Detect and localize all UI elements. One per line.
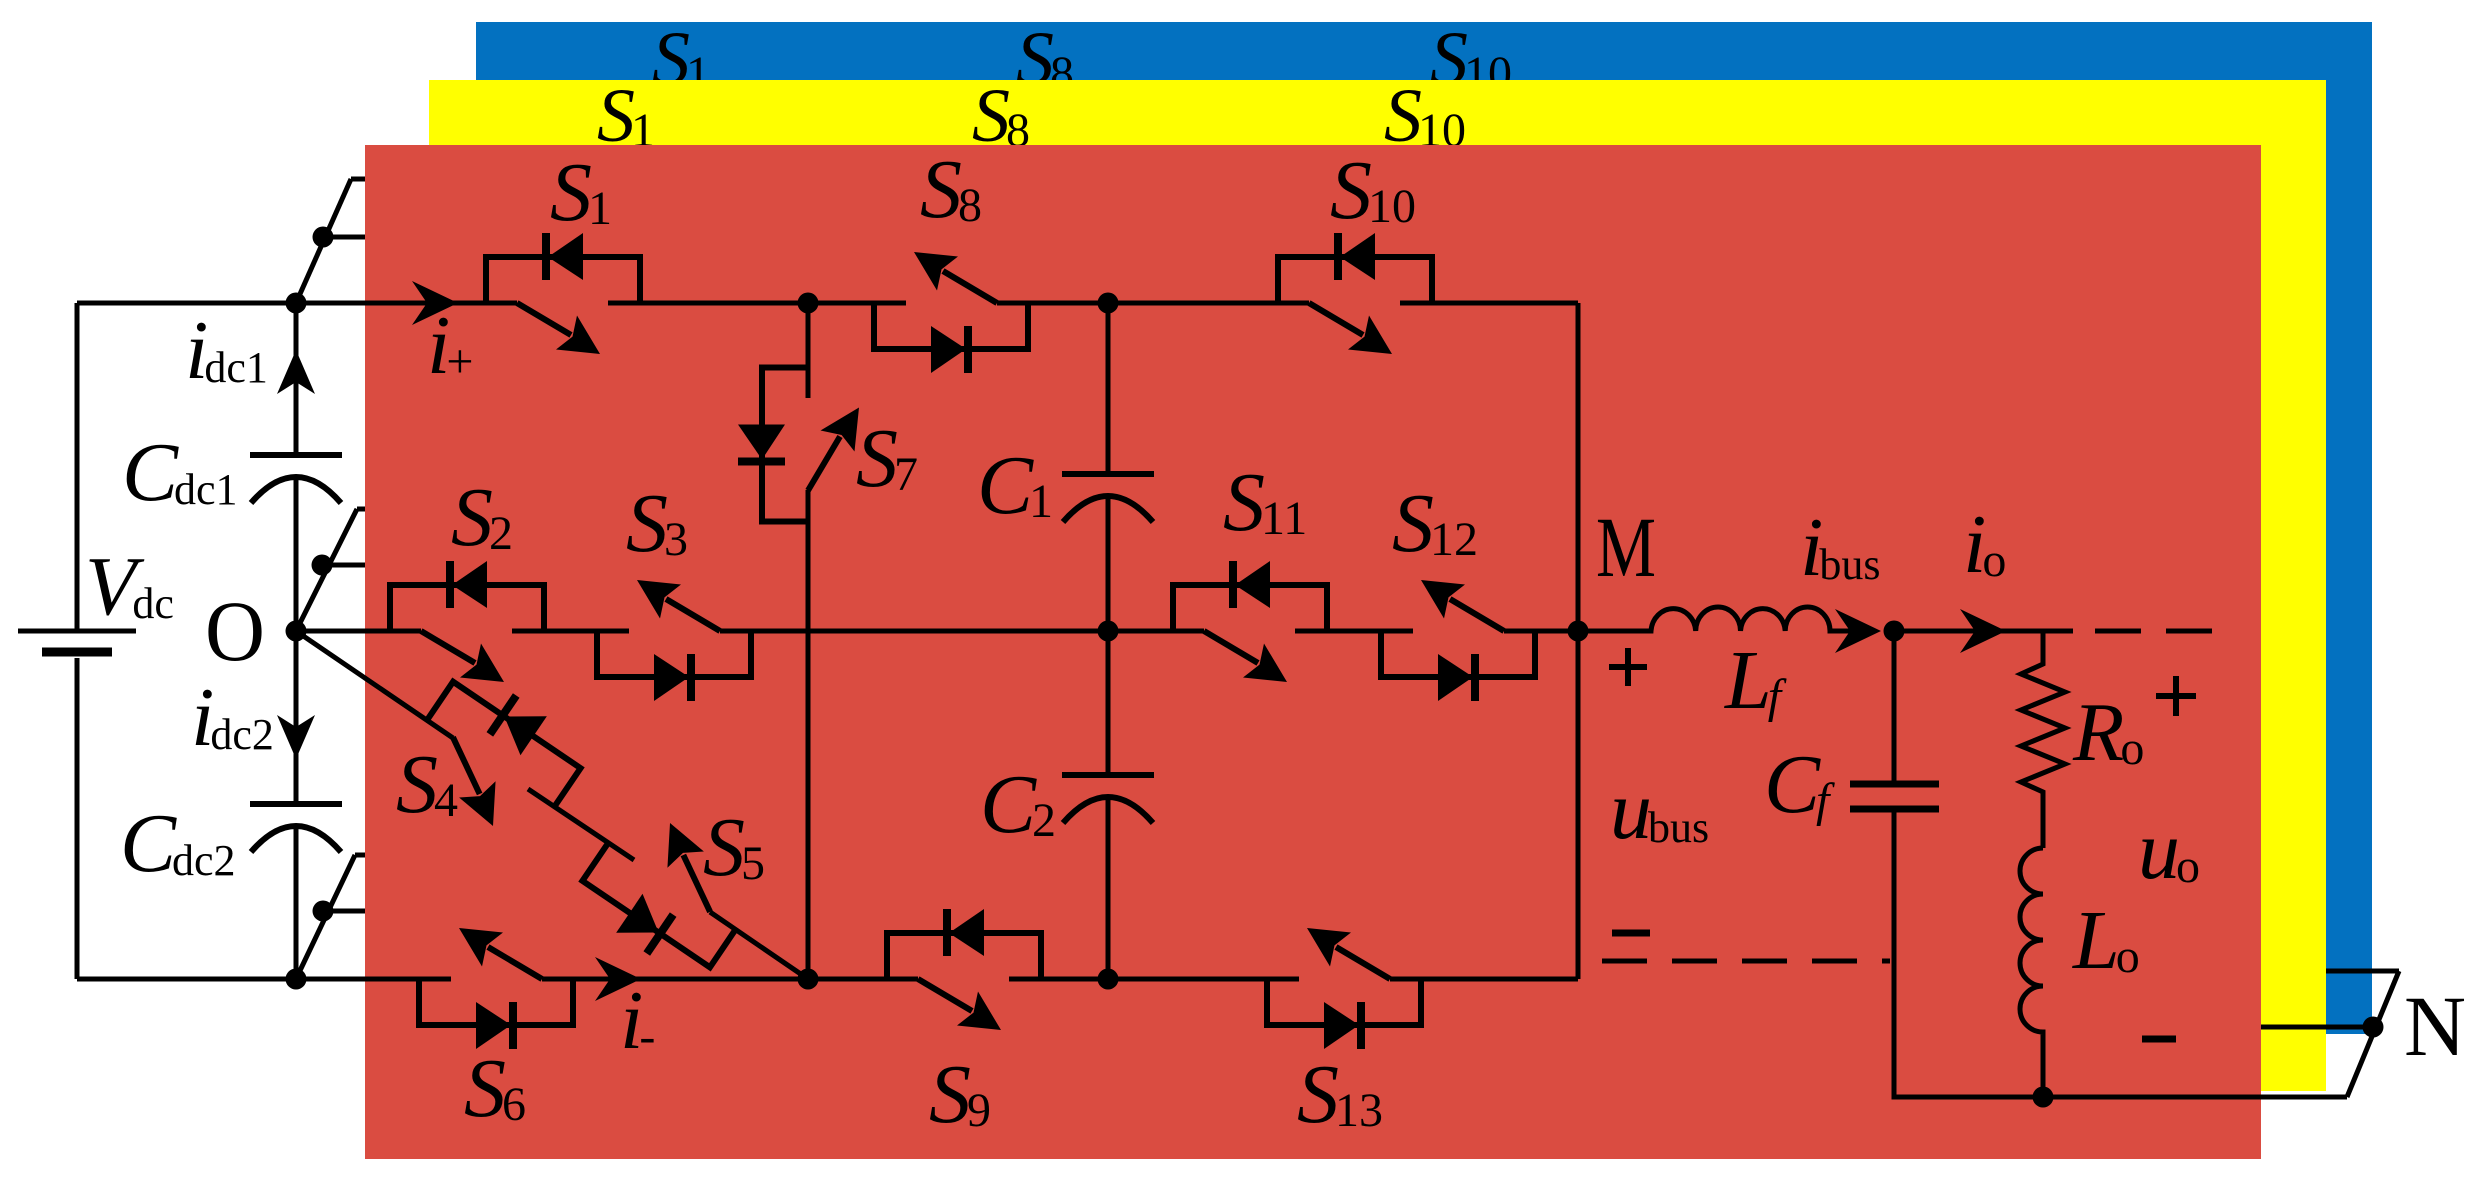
node M	[1568, 621, 1589, 642]
node C1 C2 middle junction	[1098, 621, 1119, 642]
plus sign ubus	[1609, 648, 1647, 686]
switch S10	[1278, 233, 1432, 354]
node top-left junction	[286, 293, 307, 314]
wire tap stub to yellow bottom bus	[323, 909, 410, 914]
svg-text:idc2: idc2	[191, 671, 274, 764]
svg-text:idc1: idc1	[185, 304, 268, 397]
minus sign ubus	[1612, 930, 1650, 937]
switch S13	[1267, 928, 1421, 1049]
wire top bus	[77, 301, 1578, 306]
switch S4	[399, 662, 594, 849]
minus sign uo	[2142, 1036, 2176, 1043]
wire blue layer output rail	[2326, 969, 2399, 974]
switch S9	[887, 909, 1041, 1030]
capacitor Cdc2	[250, 804, 342, 852]
wire diagonal branch O to bottom node (S4 S5)	[296, 631, 808, 979]
wire output line	[1894, 629, 2073, 634]
current arrow idc2	[277, 715, 315, 759]
current arrow ibus	[1835, 609, 1881, 653]
battery Vdc negative plate	[42, 648, 112, 657]
switch S11	[1173, 561, 1327, 682]
node tap top yellow	[313, 227, 334, 248]
switch S3	[597, 580, 751, 701]
node tap bottom yellow	[313, 901, 334, 922]
wire Cdc2 branch	[294, 631, 299, 979]
node S7 top junction	[798, 293, 819, 314]
wire Cf branch upper	[1892, 631, 1897, 784]
wire bottom bus	[77, 977, 1578, 982]
node tap middle yellow	[312, 555, 333, 576]
blue layer rectangle (phase C)	[476, 22, 2372, 1034]
red layer rectangle (phase A)	[365, 145, 2261, 1159]
wire Cf branch lower and bottom output rail	[1894, 809, 2347, 1097]
node N	[2363, 1017, 2384, 1038]
resistor Ro	[2021, 631, 2065, 848]
wire dashed output continuation	[2095, 629, 2212, 634]
inductor Lf	[1578, 607, 1866, 631]
switch S5	[569, 801, 764, 988]
yellow layer rectangle (phase B)	[429, 80, 2326, 1091]
current arrow io	[1960, 609, 2006, 653]
wire N joining diagonal	[2347, 971, 2399, 1097]
capacitor C1	[1062, 474, 1154, 522]
switch S7	[738, 368, 859, 522]
inductor Lo	[2020, 848, 2043, 1097]
current arrow i+	[412, 281, 458, 325]
wire left DC rail	[75, 303, 80, 979]
node Cf junction	[1884, 621, 1905, 642]
node Lo bottom junction	[2033, 1087, 2054, 1108]
switch S8	[874, 252, 1028, 373]
svg-text:Cdc2: Cdc2	[120, 797, 236, 890]
svg-text:Cdc1: Cdc1	[122, 426, 238, 519]
current arrow i-	[595, 957, 641, 1001]
wire tap stub to blue middle bus	[357, 507, 410, 512]
battery Vdc positive plate	[18, 629, 136, 634]
svg-text:Vdc: Vdc	[85, 540, 174, 633]
svg-text:N: N	[2404, 978, 2466, 1074]
wire S7 branch vertical	[806, 303, 811, 979]
current arrow idc1	[277, 350, 315, 394]
switch S2	[390, 561, 544, 682]
switch S1	[486, 233, 640, 354]
node S4 S5 bottom junction	[798, 969, 819, 990]
switch S6	[419, 928, 573, 1049]
wire tap stub to blue bottom bus	[355, 853, 410, 858]
node C2 bottom junction	[1098, 969, 1119, 990]
node O	[286, 621, 307, 642]
wire C1 C2 branch vertical	[1106, 303, 1111, 979]
wire yellow layer output rail	[2261, 1025, 2373, 1030]
wire tap diagonal at bottom-left node	[296, 855, 355, 979]
wire middle bus	[296, 629, 1578, 634]
capacitor C2	[1062, 775, 1154, 823]
wire tap stub to yellow top bus	[323, 235, 410, 240]
switch S12	[1381, 580, 1535, 701]
node bottom-left junction	[286, 969, 307, 990]
svg-text:M: M	[1596, 499, 1656, 595]
wire tap stub to yellow middle bus	[322, 563, 410, 568]
wire tap stub to blue top bus	[351, 177, 410, 182]
wire dashed ubus reference	[1602, 959, 1890, 964]
node C1 top junction	[1098, 293, 1119, 314]
capacitor Cf	[1850, 781, 1939, 788]
wire tap diagonal at top-left node	[296, 179, 351, 303]
svg-text:O: O	[205, 583, 265, 679]
wire tap diagonal at node O	[296, 509, 357, 631]
capacitor Cdc1	[250, 455, 342, 503]
wire right vertical (top bus to M to bottom bus)	[1576, 303, 1581, 979]
plus sign uo	[2156, 676, 2196, 716]
wire Cdc1 branch	[294, 303, 299, 631]
